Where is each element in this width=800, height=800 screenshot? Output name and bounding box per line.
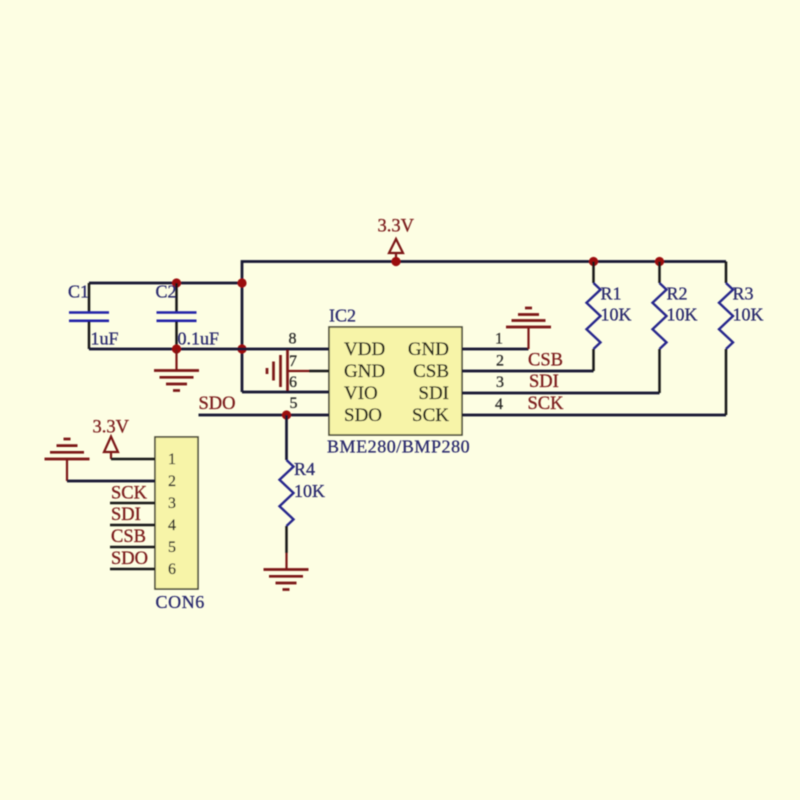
- junction dot vertical/captop: [237, 278, 246, 287]
- svg-text:SDI: SDI: [529, 372, 559, 392]
- resistor R2: [653, 262, 667, 394]
- svg-text:BME280/BMP280: BME280/BMP280: [327, 437, 470, 457]
- capacitor C1: [69, 283, 109, 349]
- svg-text:10K: 10K: [733, 305, 764, 325]
- svg-text:GND: GND: [408, 339, 449, 360]
- svg-text:4: 4: [495, 396, 503, 413]
- svg-text:C2: C2: [156, 282, 177, 302]
- junction dot rail/R1: [589, 257, 598, 266]
- con6 pin6 stub: [110, 568, 155, 571]
- con6 pin5 stub: [110, 546, 155, 549]
- svg-text:3.3V: 3.3V: [93, 418, 130, 438]
- svg-text:R4: R4: [294, 459, 315, 479]
- junction dot rail/3.3V: [391, 257, 400, 266]
- svg-text:5: 5: [168, 539, 176, 556]
- resistor R3: [719, 262, 733, 416]
- svg-text:3: 3: [496, 374, 504, 391]
- junction dot rail/R2: [655, 257, 664, 266]
- junction dot SDO/R4: [282, 410, 291, 419]
- connector CON6 body: [155, 437, 198, 589]
- svg-text:4: 4: [168, 517, 176, 534]
- svg-text:CSB: CSB: [111, 527, 146, 547]
- wire pin5 SDO: [199, 414, 330, 417]
- svg-text:R2: R2: [667, 284, 688, 304]
- svg-text:2: 2: [168, 473, 176, 490]
- svg-text:R3: R3: [733, 284, 754, 304]
- ground below R4: [264, 570, 309, 590]
- svg-text:SCK: SCK: [528, 394, 565, 414]
- svg-text:CSB: CSB: [528, 351, 563, 371]
- svg-text:10K: 10K: [601, 305, 632, 325]
- svg-text:7: 7: [289, 353, 297, 370]
- svg-text:SCK: SCK: [412, 405, 449, 426]
- svg-text:SDO: SDO: [199, 394, 236, 414]
- svg-text:1uF: 1uF: [91, 329, 119, 349]
- resistor R1: [587, 262, 601, 372]
- wire power rail 3.3V: [242, 262, 726, 393]
- svg-text:IC2: IC2: [329, 306, 356, 326]
- junction dot C2 bottom: [172, 344, 181, 353]
- svg-text:1: 1: [168, 451, 176, 468]
- svg-text:R1: R1: [601, 284, 622, 304]
- svg-text:10K: 10K: [294, 481, 325, 501]
- junction dot C2 top: [172, 278, 181, 287]
- wire capacitor bottom: [89, 348, 242, 351]
- wire pin2 CSB: [462, 370, 594, 373]
- svg-text:GND: GND: [344, 361, 385, 382]
- svg-text:CON6: CON6: [156, 592, 205, 612]
- svg-text:VIO: VIO: [344, 383, 378, 404]
- svg-text:8: 8: [289, 331, 297, 348]
- svg-text:SDI: SDI: [418, 383, 449, 404]
- svg-text:3: 3: [168, 495, 176, 512]
- svg-text:SDO: SDO: [344, 405, 382, 426]
- ground rotated at pin7: [267, 350, 309, 392]
- svg-text:2: 2: [496, 353, 504, 370]
- svg-text:0.1uF: 0.1uF: [178, 329, 220, 349]
- svg-text:3.3V: 3.3V: [378, 217, 415, 237]
- wire con6 pin2: [67, 480, 155, 483]
- wire capacitor top: [89, 282, 242, 285]
- wire pin8 VDD: [242, 348, 329, 351]
- svg-text:C1: C1: [68, 282, 89, 302]
- wire pin1 GND: [462, 348, 529, 351]
- ground con6 (inverted): [45, 439, 90, 481]
- resistor R4: [280, 415, 294, 569]
- capacitor C2: [157, 283, 197, 349]
- IC2 body BME280: [329, 327, 462, 435]
- power port 3.3V con6: [104, 437, 118, 460]
- svg-text:1: 1: [495, 331, 503, 348]
- power port 3.3V top: [389, 239, 403, 262]
- svg-text:6: 6: [168, 561, 176, 578]
- svg-text:SDO: SDO: [111, 549, 148, 569]
- wire con6 pin1: [111, 458, 155, 461]
- svg-text:10K: 10K: [667, 305, 698, 325]
- wire pin6 VIO: [242, 391, 329, 394]
- pin 7 stub: [309, 370, 329, 373]
- con6 pin4 stub: [110, 524, 155, 527]
- junction dot pin8: [237, 344, 246, 353]
- svg-text:VDD: VDD: [344, 339, 385, 360]
- ground below C2: [154, 349, 199, 391]
- svg-text:5: 5: [290, 395, 298, 412]
- svg-text:SCK: SCK: [111, 484, 148, 504]
- wire pin4 SCK: [462, 414, 726, 417]
- ground above pin1 (inverted): [506, 308, 551, 349]
- wire pin3 SDI: [462, 392, 660, 395]
- svg-text:SDI: SDI: [111, 505, 141, 525]
- svg-text:6: 6: [289, 374, 297, 391]
- con6 pin3 stub: [110, 502, 155, 505]
- svg-text:CSB: CSB: [413, 361, 449, 382]
